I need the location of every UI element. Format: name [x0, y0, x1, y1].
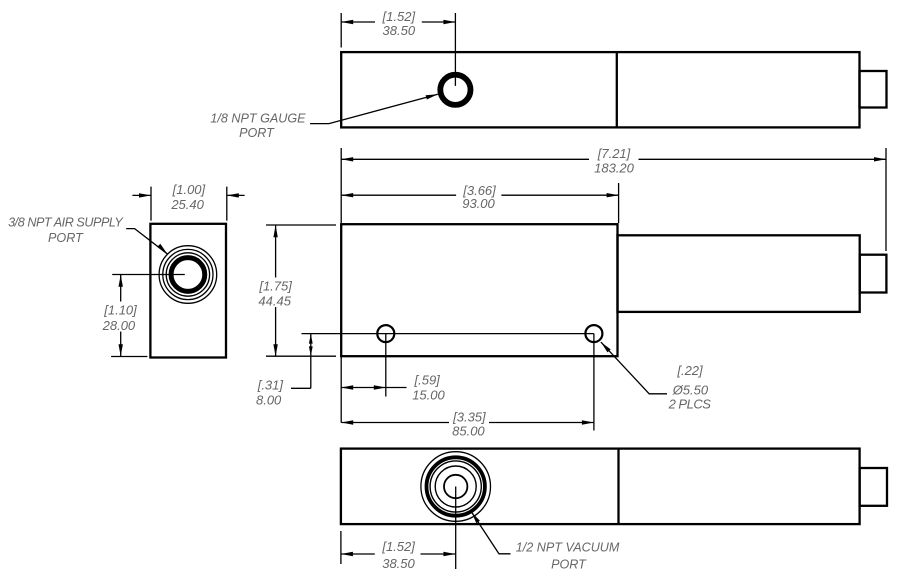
mounting holes centerline [302, 333, 594, 335]
mounting hole 1 [377, 325, 394, 342]
svg-text:183.20: 183.20 [594, 161, 635, 176]
left view body [150, 224, 226, 358]
svg-text:[7.21]: [7.21] [597, 146, 631, 161]
front view body [341, 224, 617, 356]
svg-text:85.00: 85.00 [452, 424, 485, 439]
vacuum port leader [472, 512, 511, 554]
dim [3.66] dimension line [341, 193, 618, 197]
svg-text:2 PLCS: 2 PLCS [668, 397, 712, 412]
svg-text:[1.10]: [1.10] [103, 303, 137, 318]
svg-text:44.45: 44.45 [258, 294, 291, 309]
dim [7.21] extension lines [341, 148, 886, 251]
hole callout text [668, 363, 712, 411]
svg-text:[1.00]: [1.00] [172, 182, 206, 197]
svg-text:[.22]: [.22] [676, 363, 703, 378]
dim [.59] dimension line [341, 385, 406, 389]
dim [.31] text [256, 378, 283, 408]
svg-text:[1.52]: [1.52] [382, 9, 416, 24]
svg-text:1/2 NPT VACUUM: 1/2 NPT VACUUM [516, 541, 620, 555]
svg-text:PORT: PORT [551, 557, 587, 571]
air supply port [159, 246, 217, 304]
gauge port label [210, 111, 306, 140]
dim [3.66] extension line [618, 183, 620, 223]
svg-text:38.50: 38.50 [383, 23, 416, 38]
svg-text:[1.75]: [1.75] [258, 279, 292, 294]
dim [1.10] bottom extension line [111, 356, 147, 358]
dim [1.52] top text [382, 9, 416, 38]
dim [1.52] top extension line [340, 13, 342, 48]
vacuum port [421, 452, 491, 522]
mounting hole 2 [585, 325, 602, 342]
dim [1.10] text [102, 303, 138, 334]
dim [1.00] text [170, 182, 205, 212]
gauge port hole [438, 72, 473, 107]
dim [1.52] top dimension line [341, 20, 455, 24]
gauge port centerline [454, 13, 456, 86]
air port centerline [112, 274, 185, 276]
dim [.31] dimension line [291, 334, 313, 389]
svg-text:[.59]: [.59] [414, 373, 441, 388]
left edge long extension line [340, 356, 342, 422]
svg-text:3/8 NPT AIR SUPPLY: 3/8 NPT AIR SUPPLY [8, 215, 124, 229]
gauge port leader [310, 94, 438, 123]
front view muffler barrel [618, 235, 860, 312]
dim [1.75] text [258, 279, 292, 309]
dim [3.66] text [462, 183, 496, 211]
top view muffler tab [860, 71, 887, 108]
svg-text:PORT: PORT [48, 231, 84, 245]
svg-text:15.00: 15.00 [412, 388, 445, 403]
dim [1.10] dimension line [119, 275, 123, 357]
dim [1.00] dimension line [132, 193, 244, 197]
top view body [341, 52, 859, 127]
dim bottom [1.52] text [381, 539, 415, 571]
svg-text:[3.35]: [3.35] [452, 409, 486, 424]
dim bottom [1.52] dimension line [341, 552, 456, 556]
bottom view body [341, 449, 860, 524]
svg-text:25.40: 25.40 [170, 197, 204, 212]
svg-text:28.00: 28.00 [102, 318, 136, 333]
dim [1.75] extension lines [266, 225, 336, 356]
dim bottom [1.52] extension line [340, 531, 342, 564]
svg-text:8.00: 8.00 [256, 393, 282, 408]
dim [7.21] text [594, 146, 635, 175]
bottom view muffler tab [860, 468, 887, 506]
hole callout leader [601, 342, 667, 394]
vacuum port label [516, 541, 620, 572]
dim [.59] text [412, 373, 445, 403]
hole 1 extension line [385, 334, 387, 397]
front view muffler tab [860, 255, 887, 293]
dim [1.00] extension lines [151, 187, 227, 221]
dim [3.35] text [452, 409, 486, 438]
svg-text:Ø5.50: Ø5.50 [672, 383, 709, 398]
dim [7.21] dimension line [341, 157, 886, 161]
hole 2 extension line [593, 334, 595, 431]
svg-text:1/8 NPT GAUGE: 1/8 NPT GAUGE [210, 111, 306, 125]
air supply leader [126, 229, 167, 254]
dim [1.75] dimension line [273, 225, 277, 356]
dim [3.35] dimension line [341, 420, 594, 424]
svg-text:[1.52]: [1.52] [381, 539, 415, 554]
svg-text:93.00: 93.00 [462, 196, 495, 211]
svg-text:[.31]: [.31] [257, 378, 284, 393]
svg-text:38.50: 38.50 [382, 556, 415, 571]
svg-text:PORT: PORT [239, 126, 275, 140]
vacuum port centerline [455, 487, 457, 570]
air supply label [8, 215, 124, 245]
